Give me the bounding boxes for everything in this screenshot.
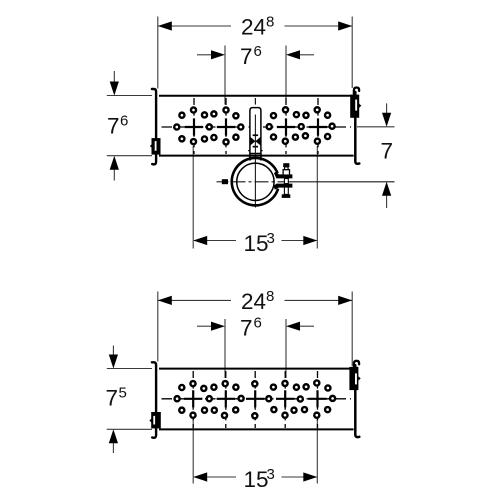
slot clamp nut bars <box>253 134 258 136</box>
dimension 7.6 bottom view <box>197 319 314 378</box>
right top mounting tab top view <box>350 95 361 118</box>
svg-text:6: 6 <box>254 43 262 60</box>
svg-text:5: 5 <box>119 385 127 402</box>
plate outline top view <box>152 88 359 165</box>
diamond hole group right bottom view <box>294 385 299 390</box>
bottom edge <box>159 155 354 157</box>
left bottom mounting tab top view <box>150 138 161 155</box>
holes below crosses bottom view <box>190 413 195 418</box>
arc hole group left end top view <box>174 124 179 129</box>
pipe clamp <box>217 136 395 208</box>
svg-text:15: 15 <box>244 467 269 492</box>
clamp vertical centerline <box>254 136 256 208</box>
dimension 24.8 top view <box>158 17 352 89</box>
svg-text:3: 3 <box>267 230 275 247</box>
svg-text:8: 8 <box>266 14 274 31</box>
svg-text:7: 7 <box>240 315 253 340</box>
dimension 15.3 top view <box>193 146 317 249</box>
svg-text:15: 15 <box>244 231 269 256</box>
top edge <box>159 95 354 97</box>
diamond hole group left bottom view <box>201 386 206 391</box>
diamond hole group left top view <box>202 112 207 117</box>
right bracket edge <box>354 88 359 95</box>
clamp hinge tick left <box>222 179 228 184</box>
dimension 15.3 bottom view <box>193 420 317 484</box>
dimension 7.6 left side top view <box>107 71 152 181</box>
dimension 7.5 left side bottom view <box>107 346 152 454</box>
horizontal centerline top view <box>162 126 352 128</box>
left bracket edge <box>152 362 156 438</box>
top edge <box>159 368 354 370</box>
clamp flange bars <box>274 172 292 179</box>
clamp outer band (gap at right) <box>232 158 278 205</box>
cross marks bottom view <box>184 390 202 407</box>
dimension 7.6 top view <box>197 46 314 105</box>
dimension 24.8 bottom view <box>158 292 352 367</box>
right bracket edge <box>354 361 359 368</box>
svg-text:6: 6 <box>120 112 128 129</box>
left bottom mounting tab bottom view <box>149 412 160 428</box>
svg-text:7: 7 <box>381 138 394 163</box>
central slot top view <box>248 98 262 154</box>
right top mounting tab bottom view <box>349 367 360 390</box>
vertical centerlines of cross columns top view <box>194 98 318 154</box>
svg-text:6: 6 <box>254 314 262 331</box>
clamp inner circle (pipe) <box>237 163 274 200</box>
arc hole group left end bottom view <box>175 396 180 401</box>
arc hole group left of cross D bottom view <box>266 396 271 401</box>
clamp horizontal centerline <box>217 181 229 183</box>
svg-text:24: 24 <box>241 289 266 314</box>
svg-text:7: 7 <box>106 386 119 411</box>
plate outline bottom view <box>152 361 359 438</box>
arc hole group right end top view <box>330 124 335 129</box>
clamp bolt <box>283 163 289 167</box>
clamp neck lines <box>249 154 251 161</box>
svg-text:7: 7 <box>240 44 253 69</box>
holes below crosses top view <box>191 139 196 144</box>
vertical centerlines of cross columns bottom view <box>193 371 317 428</box>
svg-text:24: 24 <box>241 15 266 40</box>
diamond hole group right top view <box>294 112 299 117</box>
arc hole group right end bottom view <box>330 396 335 401</box>
left bracket edge <box>152 89 156 164</box>
arc hole group left of third cross top view <box>267 124 272 129</box>
holes above crosses top view <box>191 107 196 112</box>
svg-text:7: 7 <box>107 113 120 138</box>
svg-text:8: 8 <box>266 288 274 305</box>
dimension 7 right side top view <box>357 103 395 208</box>
bottom edge <box>159 428 354 430</box>
arc hole group right of second cross top view <box>238 124 243 129</box>
arc hole group right of cross B bottom view <box>239 396 244 401</box>
horizontal centerline bottom view <box>162 398 352 400</box>
holes above crosses bottom view <box>190 381 195 386</box>
svg-text:3: 3 <box>267 466 275 483</box>
slot bolt X marker <box>250 137 255 146</box>
cross marks top view <box>185 118 203 135</box>
